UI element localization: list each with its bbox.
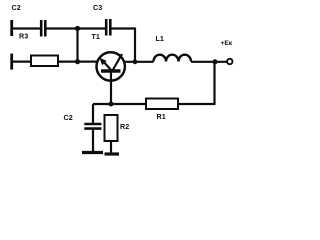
node junction dot: [75, 59, 80, 64]
wire: [125, 61, 154, 63]
wire: [110, 141, 112, 153]
svg-text:L1: L1: [156, 34, 164, 43]
node junction dot: [133, 59, 138, 64]
resistor R2: [105, 115, 118, 141]
wire: [11, 27, 40, 29]
wire: [11, 60, 31, 62]
svg-text:C2: C2: [12, 3, 21, 12]
node junction dot: [75, 26, 80, 31]
ground under R2: [105, 152, 120, 155]
capacitor C3: [105, 19, 108, 36]
svg-text:C3: C3: [93, 3, 102, 12]
capacitor C2 (bottom) stem: [92, 104, 94, 123]
resistor R3: [31, 56, 58, 67]
capacitor C2 (bottom) plates: [84, 123, 101, 126]
node junction dot: [213, 59, 218, 64]
wire: [112, 27, 137, 29]
resistor R1: [146, 99, 178, 110]
inductor L1: [154, 55, 192, 62]
transistor T1: [97, 52, 125, 104]
wire: [47, 27, 106, 29]
wire: [58, 60, 98, 62]
wire: [92, 129, 94, 152]
svg-text:R1: R1: [157, 112, 166, 121]
wire: [93, 103, 146, 105]
wire: [213, 62, 215, 104]
wire: [76, 29, 78, 62]
node junction dot: [109, 102, 114, 107]
wire: [178, 103, 216, 105]
svg-text:R3: R3: [19, 32, 28, 41]
wire: [134, 28, 136, 62]
capacitor C2 (top): [40, 20, 43, 37]
svg-text:+Eк: +Eк: [221, 40, 233, 47]
ground under C2: [82, 151, 103, 154]
input terminal top-left: [10, 20, 13, 36]
svg-text:R2: R2: [120, 122, 129, 131]
svg-text:T1: T1: [92, 32, 100, 41]
input terminal lower-left: [10, 54, 13, 70]
wire: [191, 61, 227, 63]
svg-text:C2: C2: [64, 113, 73, 122]
+Ek terminal: [227, 59, 232, 64]
